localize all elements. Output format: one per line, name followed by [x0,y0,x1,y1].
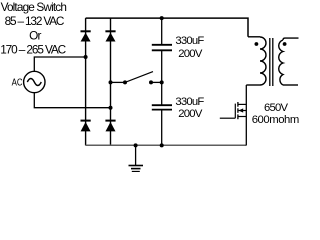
wire: AC top to bridge left leg [34,57,85,71]
svg-text:Voltage Switch: Voltage Switch [1,0,67,14]
primary winding [260,37,266,85]
label: C1 value 330uF 200V [175,35,204,60]
svg-text:170 – 265 VAC: 170 – 265 VAC [0,42,66,56]
junction: capacitor top on top rail [160,16,164,20]
capacitor C1 [152,18,172,82]
core [269,38,271,86]
transformer T1 phase dot (secondary) [283,42,287,46]
transformer T1 [246,37,298,86]
svg-text:85 – 132 VAC: 85 – 132 VAC [5,14,65,28]
wire: secondary top lead [283,38,299,40]
junction: capacitor bottom on bottom rail [160,143,164,147]
junction: AC top on left leg [84,55,88,59]
wire: bridge left leg [85,18,87,145]
secondary winding [279,40,283,85]
switch SW1 [123,72,153,85]
transformer T1 phase dot (primary) [255,42,259,46]
label: C2 value 330uF 200V [175,96,204,120]
channel bottom bar [237,114,239,119]
drain stub [238,103,246,105]
svg-text:200V: 200V [178,48,203,60]
channel top bar [237,102,239,107]
source stub [238,116,246,118]
junction: AC bottom on right leg [109,106,113,110]
diode D4 (right bottom) [105,121,115,132]
AC source V1 [24,71,45,92]
wire: secondary bottom lead [283,84,298,86]
label: voltage switch note [0,0,67,56]
wire: primary top lead [248,36,260,38]
body stub [239,110,247,112]
capacitor C2 [152,82,172,145]
junction: switch rail on right leg [109,80,113,84]
svg-text:650V: 650V [264,102,288,114]
svg-text:AC: AC [12,78,23,89]
label: Q1 value 650V 600mohm [252,102,300,126]
wire: bridge right leg [110,18,112,145]
gate bar [234,104,236,119]
svg-text:600mohm: 600mohm [252,114,300,126]
wire: right leg to switch pivot [111,81,126,83]
wire: top rail [86,18,248,37]
diode D1 (left top) [81,31,91,41]
wire: bottom rail [86,144,247,146]
wire: AC bottom to bridge right leg [34,93,110,108]
svg-text:200V: 200V [178,108,203,120]
svg-text:330uF: 330uF [175,96,204,108]
wire: primary bottom lead [246,84,260,86]
junction: capacitor midpoint [160,80,164,84]
MOSFET Q1 [235,85,246,145]
svg-text:330uF: 330uF [175,35,204,47]
channel middle bar [237,108,239,113]
MOSFET Q1 body-diode arrow [239,108,244,112]
wire: switch contact to capacitor midpoint [151,81,162,83]
junction: ground on bottom rail [134,143,138,147]
wire: drain/source vertical [245,85,247,145]
ground [129,145,144,171]
svg-text:Or: Or [29,28,41,42]
wire: gate lead [220,117,236,119]
diode D2 (right top) [105,31,115,41]
diode D3 (left bottom) [81,121,91,132]
